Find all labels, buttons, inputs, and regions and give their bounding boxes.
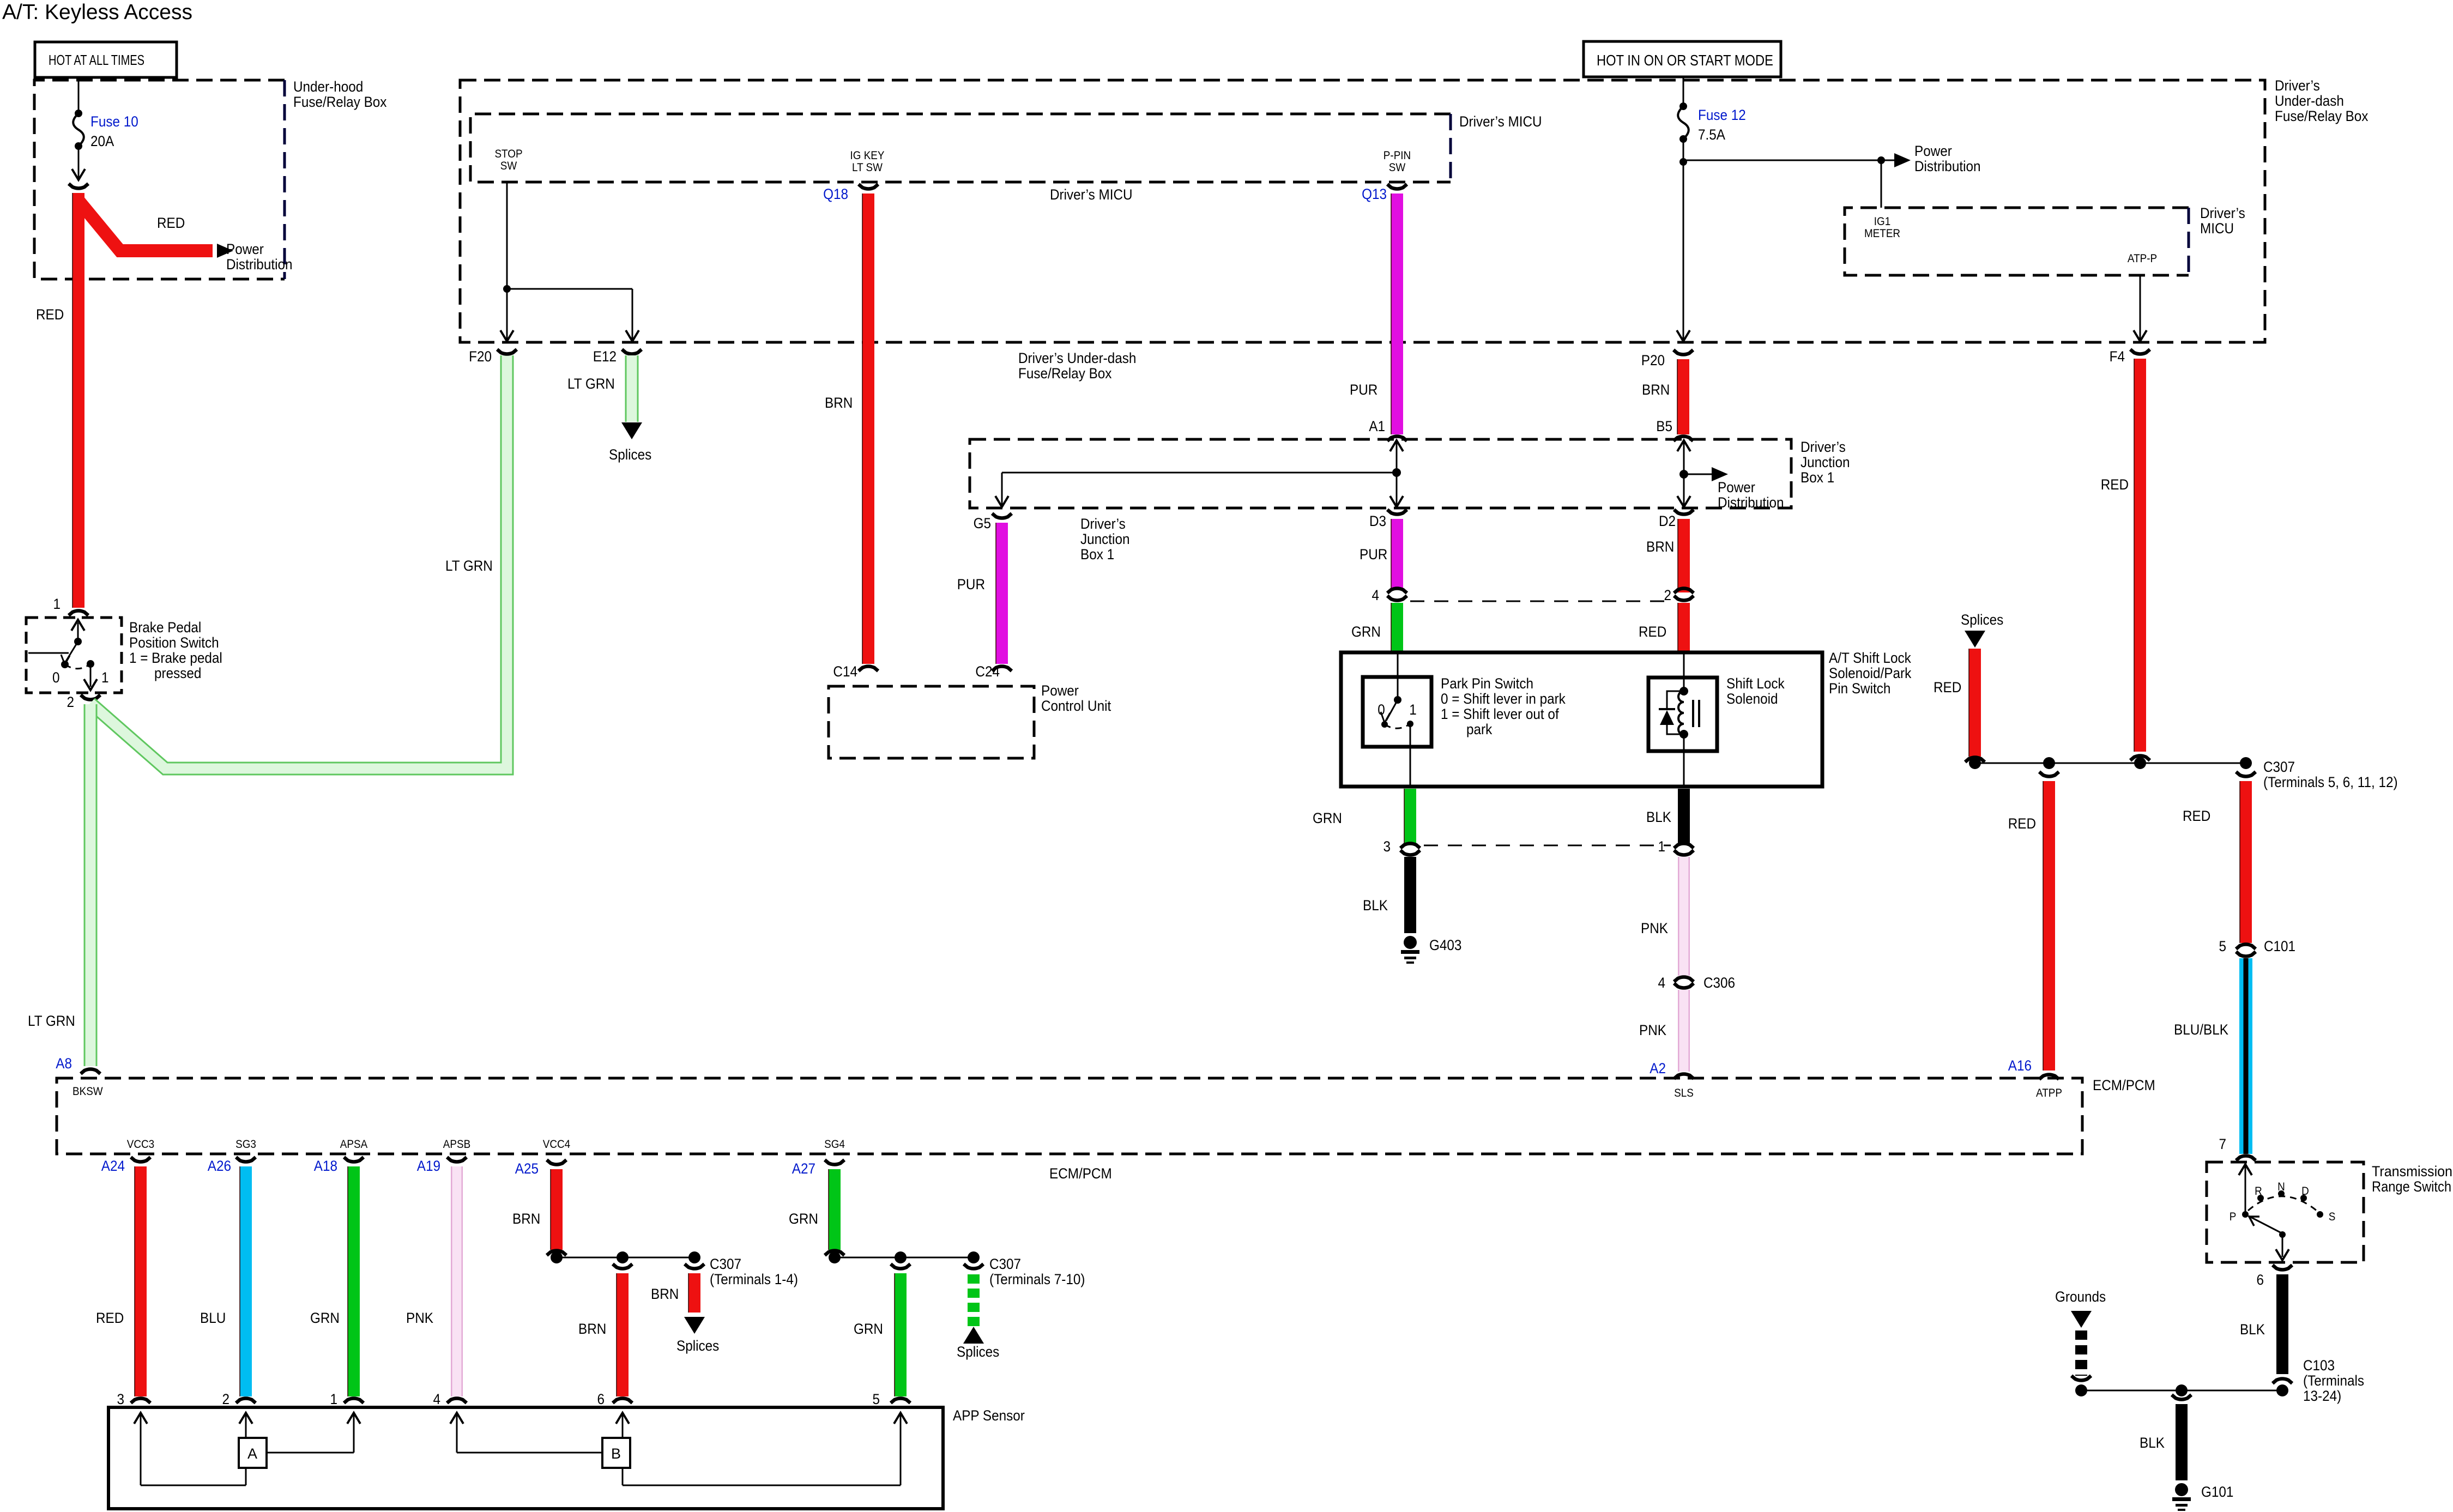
brake pedal position switch box bbox=[26, 618, 222, 693]
wire BRN A25 down bbox=[551, 1169, 557, 1250]
TRS internals bbox=[2239, 1164, 2323, 1260]
bus line C307 1-4 bbox=[551, 1251, 700, 1263]
svg-text:SW: SW bbox=[500, 160, 517, 172]
svg-text:Box 1: Box 1 bbox=[1801, 470, 1834, 486]
driver's under-dash fuse/relay box bbox=[460, 78, 2369, 342]
svg-text:(Terminals 5, 6, 11, 12): (Terminals 5, 6, 11, 12) bbox=[2263, 775, 2398, 790]
label Fuse 12 7.5A bbox=[1698, 107, 1746, 143]
under-hood fuse/relay box bbox=[34, 79, 387, 279]
label PUR (Q13) bbox=[1350, 382, 1377, 398]
svg-text:D: D bbox=[2301, 1185, 2309, 1197]
label PUR (G5) bbox=[957, 577, 985, 592]
svg-text:BRN: BRN bbox=[578, 1321, 606, 1337]
svg-text:Distribution: Distribution bbox=[226, 257, 292, 273]
label RED (F4) bbox=[2101, 477, 2129, 493]
svg-text:0: 0 bbox=[1377, 702, 1385, 718]
connector A16 top bbox=[2039, 772, 2059, 777]
svg-text:IG KEY: IG KEY bbox=[850, 149, 884, 162]
svg-text:A2: A2 bbox=[1650, 1061, 1666, 1076]
svg-text:A19: A19 bbox=[417, 1158, 440, 1174]
svg-text:SG4: SG4 bbox=[824, 1138, 845, 1151]
pin 1 brake switch bbox=[53, 596, 88, 615]
svg-text:Junction: Junction bbox=[1801, 455, 1850, 470]
svg-text:Q13: Q13 bbox=[1362, 186, 1387, 202]
pin A8 bbox=[56, 1056, 100, 1074]
label BRN (stub) bbox=[651, 1286, 679, 1302]
APP pin 3 bbox=[117, 1392, 150, 1407]
shift lock solenoid inner box bbox=[1648, 678, 1717, 751]
pin label APSB bbox=[443, 1138, 470, 1151]
svg-text:C101: C101 bbox=[2264, 939, 2295, 954]
svg-text:BKSW: BKSW bbox=[72, 1085, 103, 1098]
connector pair C306 bbox=[1658, 975, 1735, 991]
svg-text:6: 6 bbox=[597, 1392, 605, 1407]
driver's MICU box (IG1 METER) bbox=[1845, 205, 2245, 275]
svg-text:SLS: SLS bbox=[1674, 1087, 1694, 1099]
connector splice stub bbox=[1965, 758, 1985, 763]
label RED (branch) bbox=[157, 215, 185, 231]
pin label SLS bbox=[1674, 1087, 1694, 1099]
svg-text:MICU: MICU bbox=[2200, 221, 2234, 237]
wire GRN 4 to solenoid box bbox=[1391, 603, 1397, 651]
connector C101 top branch bbox=[2236, 772, 2256, 777]
label Splices (right) bbox=[1961, 612, 2003, 628]
APP pin 1 bbox=[330, 1392, 364, 1407]
svg-text:BLU/BLK: BLU/BLK bbox=[2174, 1022, 2228, 1038]
svg-text:C307: C307 bbox=[2263, 759, 2295, 775]
svg-text:3: 3 bbox=[1383, 839, 1391, 855]
svg-text:RED: RED bbox=[2101, 477, 2129, 493]
svg-text:A24: A24 bbox=[101, 1158, 125, 1174]
svg-text:BLK: BLK bbox=[2240, 1322, 2265, 1338]
label BLU (A26) bbox=[200, 1310, 226, 1326]
label Power Distribution (under-hood) bbox=[226, 241, 292, 273]
connector F20 bbox=[469, 349, 517, 365]
svg-text:BRN: BRN bbox=[1646, 539, 1674, 555]
svg-text:0 = Shift lever in park: 0 = Shift lever in park bbox=[1441, 691, 1566, 707]
dashed link 4 to 2 bbox=[1410, 601, 1671, 602]
wire BLU A26 to APP 2 bbox=[240, 1166, 246, 1396]
park pin switch inner box bbox=[1363, 677, 1431, 747]
park pin switch internals bbox=[1381, 652, 1413, 787]
wire LT GRN from pin2 to F20 bbox=[90, 355, 507, 769]
svg-text:1: 1 bbox=[1409, 702, 1417, 718]
svg-text:Driver’s MICU: Driver’s MICU bbox=[1050, 187, 1133, 203]
APP internal arrows bbox=[134, 1413, 907, 1424]
connector F4 bottom bbox=[2130, 756, 2150, 761]
svg-text:HOT AT ALL TIMES: HOT AT ALL TIMES bbox=[49, 52, 144, 68]
connector F4 bbox=[2110, 349, 2150, 365]
connector pair C101 bbox=[2219, 939, 2295, 957]
svg-text:Splices: Splices bbox=[609, 447, 651, 463]
wire BRN bus to APP 6 bbox=[617, 1273, 623, 1396]
svg-text:Driver’s Under-dash: Driver’s Under-dash bbox=[1018, 350, 1136, 366]
connector pair 3 bbox=[1383, 839, 1420, 855]
svg-text:1: 1 bbox=[101, 670, 109, 686]
pin A26 bbox=[208, 1157, 256, 1174]
connector grounds stub bbox=[2071, 1376, 2091, 1381]
label S bbox=[2329, 1211, 2336, 1223]
pin label IG1 METER bbox=[1864, 215, 1900, 240]
svg-text:5: 5 bbox=[2219, 939, 2226, 954]
svg-text:6: 6 bbox=[2256, 1272, 2264, 1288]
svg-text:20A: 20A bbox=[90, 134, 114, 149]
svg-text:Splices: Splices bbox=[1961, 612, 2003, 628]
svg-text:BRN: BRN bbox=[825, 395, 853, 411]
svg-text:GRN: GRN bbox=[789, 1211, 818, 1227]
svg-text:Pin Switch: Pin Switch bbox=[1829, 681, 1890, 697]
label 0 brake switch bbox=[52, 670, 60, 686]
svg-text:5: 5 bbox=[872, 1392, 880, 1407]
svg-text:BRN: BRN bbox=[1642, 382, 1670, 398]
label PNK (lower) bbox=[1639, 1023, 1666, 1038]
pin A19 bbox=[417, 1157, 467, 1174]
svg-text:Power: Power bbox=[1041, 683, 1079, 699]
label driver's junction box 1 (middle) bbox=[1080, 516, 1129, 563]
wire RED 2 to solenoid box bbox=[1678, 603, 1684, 651]
connector E12 bbox=[593, 349, 642, 365]
svg-text:B: B bbox=[611, 1446, 621, 1462]
svg-text:LT SW: LT SW bbox=[852, 161, 883, 174]
label PNK (A19) bbox=[406, 1310, 433, 1326]
label GRN (A18) bbox=[310, 1310, 340, 1326]
svg-text:Power: Power bbox=[1914, 143, 1952, 159]
APP pin 2 bbox=[222, 1392, 256, 1407]
svg-text:R: R bbox=[2255, 1185, 2262, 1197]
svg-text:Grounds: Grounds bbox=[2055, 1289, 2106, 1305]
wire from HOT AT ALL TIMES to fuse 10 bbox=[78, 77, 80, 112]
label R bbox=[2255, 1185, 2262, 1197]
pin A25 bbox=[515, 1160, 566, 1177]
svg-text:D2: D2 bbox=[1659, 513, 1676, 529]
svg-text:VCC4: VCC4 bbox=[543, 1138, 570, 1151]
label BLK (TRS) bbox=[2240, 1322, 2265, 1338]
wire fuse 10 to connector bbox=[72, 146, 85, 180]
svg-text:7.5A: 7.5A bbox=[1698, 127, 1726, 143]
label Power Distribution (junction box) bbox=[1718, 480, 1784, 511]
svg-text:A/T: Keyless Access: A/T: Keyless Access bbox=[2, 1, 192, 24]
connector 5 top bbox=[891, 1264, 910, 1269]
svg-text:3: 3 bbox=[117, 1392, 124, 1407]
title bbox=[2, 1, 192, 24]
wire GRN A27 down bbox=[829, 1169, 835, 1250]
connector D3 bbox=[1369, 510, 1407, 529]
APP sensor box bbox=[108, 1407, 1025, 1509]
svg-text:A1: A1 bbox=[1369, 419, 1385, 434]
junction box internal A1-D3 bbox=[995, 440, 1403, 507]
A/T shift lock solenoid/park pin switch box bbox=[1341, 650, 1911, 787]
pin A16 bbox=[2008, 1058, 2059, 1079]
svg-text:Driver’s: Driver’s bbox=[2275, 78, 2320, 94]
svg-text:Distribution: Distribution bbox=[1914, 159, 1980, 174]
wire BRN D2 down bbox=[1678, 519, 1684, 592]
APP internal element B bbox=[457, 1415, 901, 1485]
connector 6 TRS bbox=[2256, 1265, 2292, 1288]
svg-text:A27: A27 bbox=[792, 1161, 815, 1177]
svg-text:1: 1 bbox=[1658, 839, 1665, 855]
wire BRN splice stub bbox=[684, 1273, 705, 1334]
wire ATP-P to F4 bbox=[2134, 275, 2147, 341]
wire PNK 1 to C306 bbox=[1678, 857, 1690, 976]
wire BLK 3 to G403 bbox=[1404, 857, 1416, 933]
svg-text:RED: RED bbox=[2008, 816, 2036, 832]
svg-text:4: 4 bbox=[1371, 588, 1379, 603]
svg-text:BLK: BLK bbox=[2140, 1435, 2165, 1451]
svg-text:F20: F20 bbox=[469, 349, 492, 365]
svg-text:Junction: Junction bbox=[1080, 531, 1129, 547]
fuse F10 symbol bbox=[73, 110, 84, 150]
svg-text:Driver’s: Driver’s bbox=[2200, 205, 2245, 221]
wire RED F4 down bbox=[2134, 359, 2140, 752]
dashed link 3 to 1 bbox=[1424, 845, 1671, 846]
svg-text:Power: Power bbox=[1718, 480, 1755, 495]
label D bbox=[2301, 1185, 2309, 1197]
svg-text:A25: A25 bbox=[515, 1161, 539, 1177]
pin label APSA bbox=[340, 1138, 368, 1151]
pin label ATPP bbox=[2036, 1087, 2062, 1099]
APP pin 6 bbox=[597, 1392, 632, 1407]
svg-text:park: park bbox=[1466, 722, 1492, 737]
label N bbox=[2277, 1181, 2285, 1193]
label Shift Lock Solenoid bbox=[1726, 676, 1785, 707]
wire RED (fuse10 down to brake switch) bbox=[72, 193, 78, 608]
svg-text:C307: C307 bbox=[989, 1256, 1021, 1272]
svg-text:A8: A8 bbox=[56, 1056, 72, 1072]
pin label IG KEY LT SW bbox=[850, 149, 884, 174]
wire BRN Q18 to C14 bbox=[862, 193, 868, 664]
svg-text:P: P bbox=[2230, 1211, 2237, 1223]
label 1 brake switch bbox=[101, 670, 109, 686]
wire RED bus to A16 bbox=[2043, 781, 2049, 1071]
svg-text:PNK: PNK bbox=[1641, 921, 1668, 936]
svg-text:A26: A26 bbox=[208, 1158, 231, 1174]
ground G403 bbox=[1401, 936, 1419, 964]
svg-text:F4: F4 bbox=[2110, 349, 2125, 365]
svg-text:0: 0 bbox=[52, 670, 60, 686]
svg-text:BRN: BRN bbox=[651, 1286, 679, 1302]
label RED (left) bbox=[36, 307, 64, 323]
label driver's MICU (middle) bbox=[1050, 187, 1133, 203]
wire branch to E12 bbox=[507, 289, 639, 341]
svg-text:4: 4 bbox=[433, 1392, 440, 1407]
pin A2 bbox=[1650, 1061, 1694, 1079]
splice triangle and RED stub bbox=[1965, 631, 1985, 757]
svg-text:G5: G5 bbox=[974, 516, 991, 531]
APP pin 5 bbox=[872, 1392, 910, 1407]
label Splices (C307 1-4) bbox=[676, 1338, 719, 1354]
label G101 bbox=[2201, 1484, 2233, 1500]
label LT GRN (lower) bbox=[28, 1013, 75, 1029]
wire LT GRN E12 stub bbox=[621, 355, 642, 439]
svg-text:BLU: BLU bbox=[200, 1310, 226, 1326]
svg-text:PUR: PUR bbox=[1360, 547, 1387, 563]
pin label SG4 bbox=[824, 1138, 845, 1151]
fuse F12 symbol bbox=[1678, 102, 1689, 143]
svg-text:A18: A18 bbox=[314, 1158, 337, 1174]
wire PNK C306 to A2 bbox=[1678, 990, 1690, 1072]
label Park Pin Switch bbox=[1441, 676, 1566, 737]
svg-text:13-24): 13-24) bbox=[2303, 1388, 2341, 1404]
svg-text:Power: Power bbox=[226, 241, 264, 257]
label GRN (park chain) bbox=[1313, 811, 1342, 826]
power control unit box bbox=[829, 683, 1111, 758]
svg-text:APSA: APSA bbox=[340, 1138, 368, 1151]
wire PUR G5 to C24 bbox=[996, 523, 1002, 664]
label 0 park pin bbox=[1377, 702, 1385, 718]
svg-text:VCC3: VCC3 bbox=[127, 1138, 154, 1151]
svg-text:(Terminals: (Terminals bbox=[2303, 1373, 2364, 1389]
svg-text:1 = Brake pedal: 1 = Brake pedal bbox=[129, 650, 222, 666]
pin Q18 bbox=[823, 184, 878, 202]
svg-text:P-PIN: P-PIN bbox=[1383, 149, 1411, 162]
label GRN (A27) bbox=[789, 1211, 818, 1227]
wire GRN dashed splice stub bbox=[963, 1274, 984, 1344]
bus line C307 5-6-11-12 bbox=[1969, 757, 2252, 769]
svg-text:ECM/PCM: ECM/PCM bbox=[1049, 1166, 1112, 1182]
svg-text:Range Switch: Range Switch bbox=[2372, 1178, 2451, 1195]
connector C24 bbox=[975, 664, 1012, 680]
label Grounds bbox=[2055, 1289, 2106, 1305]
svg-text:PUR: PUR bbox=[957, 577, 985, 592]
wire PUR D3 down bbox=[1391, 519, 1397, 588]
svg-text:RED: RED bbox=[1639, 624, 1666, 640]
connector 7 bbox=[2219, 1136, 2256, 1160]
svg-text:RED: RED bbox=[96, 1310, 124, 1326]
ground G101 bbox=[2172, 1483, 2191, 1511]
svg-text:ECM/PCM: ECM/PCM bbox=[2093, 1078, 2155, 1093]
svg-text:N: N bbox=[2277, 1181, 2285, 1193]
label RED (C101) bbox=[2183, 808, 2210, 824]
svg-text:C103: C103 bbox=[2303, 1358, 2335, 1374]
bus line C307 7-10 bbox=[829, 1251, 980, 1263]
label C307 (Terminals 7-10) bbox=[989, 1256, 1085, 1287]
label 1 park pin bbox=[1409, 702, 1417, 718]
label LT GRN (middle) bbox=[445, 558, 493, 574]
connector A1 bbox=[1369, 419, 1407, 441]
svg-text:A/T Shift Lock: A/T Shift Lock bbox=[1829, 650, 1911, 666]
wire RED bus to C101 bbox=[2240, 781, 2246, 943]
svg-text:Park Pin Switch: Park Pin Switch bbox=[1441, 676, 1533, 692]
svg-text:G101: G101 bbox=[2201, 1484, 2233, 1500]
svg-text:LT GRN: LT GRN bbox=[567, 376, 615, 392]
svg-text:Brake Pedal: Brake Pedal bbox=[129, 620, 201, 636]
pin label VCC3 bbox=[127, 1138, 154, 1151]
svg-text:BLK: BLK bbox=[1646, 809, 1671, 825]
connector B5 bbox=[1656, 419, 1693, 441]
svg-text:BLK: BLK bbox=[1363, 898, 1388, 914]
svg-text:Splices: Splices bbox=[957, 1344, 999, 1360]
svg-text:IG1: IG1 bbox=[1874, 215, 1890, 228]
APP internal element A bbox=[141, 1415, 354, 1485]
pin label ATP-P bbox=[2128, 252, 2157, 265]
svg-text:Fuse/Relay Box: Fuse/Relay Box bbox=[293, 94, 387, 110]
wire fuse 12 down to P20 bbox=[1677, 139, 1690, 341]
label RED (A16) bbox=[2008, 816, 2036, 832]
svg-text:SG3: SG3 bbox=[235, 1138, 256, 1151]
svg-text:C307: C307 bbox=[710, 1256, 741, 1272]
wire LT GRN pin2 down to A8 bbox=[84, 704, 98, 1066]
pin A24 bbox=[101, 1157, 150, 1174]
connector pair 2 bbox=[1664, 588, 1694, 603]
label BRN (P20) bbox=[1642, 382, 1670, 398]
connector P20 bbox=[1641, 350, 1693, 368]
svg-text:1: 1 bbox=[53, 596, 61, 612]
label BRN (A25) bbox=[512, 1211, 540, 1227]
wire GRN park pin to 3 bbox=[1404, 789, 1410, 844]
svg-text:Fuse 10: Fuse 10 bbox=[90, 114, 138, 130]
svg-text:SW: SW bbox=[1389, 161, 1406, 174]
svg-text:A16: A16 bbox=[2008, 1058, 2032, 1074]
wire RED A24 to APP 3 bbox=[135, 1166, 141, 1396]
label BLU/BLK bbox=[2174, 1022, 2228, 1038]
svg-text:Driver’s: Driver’s bbox=[1080, 516, 1126, 532]
svg-text:Control Unit: Control Unit bbox=[1041, 698, 1111, 714]
wire branch power distribution (under-dash) bbox=[1683, 153, 1911, 167]
label BLK (park chain) bbox=[1363, 898, 1388, 914]
svg-text:(Terminals 7-10): (Terminals 7-10) bbox=[989, 1272, 1085, 1287]
label BLK (solenoid chain) bbox=[1646, 809, 1671, 825]
svg-text:Fuse/Relay Box: Fuse/Relay Box bbox=[1018, 366, 1112, 382]
label GRN (pin5) bbox=[854, 1321, 883, 1337]
svg-text:RED: RED bbox=[2183, 808, 2210, 824]
connector top of RED wire bbox=[69, 184, 88, 189]
header box HOT AT ALL TIMES bbox=[35, 42, 177, 77]
brake switch internal switch bbox=[28, 620, 97, 690]
connector A25 bottom bbox=[547, 1251, 566, 1256]
svg-text:APSB: APSB bbox=[443, 1138, 470, 1151]
svg-text:Splices: Splices bbox=[676, 1338, 719, 1354]
connector G101 top bbox=[2172, 1395, 2191, 1400]
connector C14 bbox=[833, 664, 878, 680]
svg-text:1: 1 bbox=[330, 1392, 337, 1407]
svg-text:Fuse 12: Fuse 12 bbox=[1698, 107, 1746, 123]
ground bus line bbox=[2075, 1384, 2288, 1396]
connector C103 bbox=[2273, 1379, 2292, 1384]
svg-text:pressed: pressed bbox=[154, 666, 201, 681]
svg-text:Fuse/Relay Box: Fuse/Relay Box bbox=[2275, 108, 2369, 124]
wire RED power distribution branch bbox=[78, 201, 233, 258]
svg-text:APP Sensor: APP Sensor bbox=[953, 1408, 1025, 1424]
wire GRN A18 to APP 1 bbox=[348, 1166, 354, 1396]
label PNK (upper) bbox=[1641, 921, 1668, 936]
svg-text:GRN: GRN bbox=[1351, 624, 1381, 640]
svg-text:Under-dash: Under-dash bbox=[2275, 93, 2344, 109]
svg-text:2: 2 bbox=[1664, 588, 1671, 603]
pin label BKSW bbox=[72, 1085, 103, 1098]
svg-text:Position Switch: Position Switch bbox=[129, 635, 219, 651]
label BRN (D2) bbox=[1646, 539, 1674, 555]
svg-text:B5: B5 bbox=[1656, 419, 1672, 434]
solenoid U1 internals bbox=[1659, 652, 1699, 787]
svg-text:Under-hood: Under-hood bbox=[293, 79, 363, 95]
wire PNK A19 to APP 4 bbox=[451, 1166, 463, 1396]
wire BLK solenoid to 1 bbox=[1678, 789, 1690, 844]
connector D2 bbox=[1659, 510, 1694, 529]
connector pair 4 bbox=[1371, 588, 1407, 603]
label ECM/PCM (lower) bbox=[1049, 1166, 1112, 1182]
label BRN (Q18) bbox=[825, 395, 853, 411]
wire BLK to G101 bbox=[2176, 1404, 2188, 1480]
svg-text:4: 4 bbox=[1658, 975, 1665, 991]
wire from HOT IN ON to fuse 12 bbox=[1683, 77, 1684, 105]
wire branch down to IG1 METER bbox=[1881, 160, 1882, 208]
svg-text:Distribution: Distribution bbox=[1718, 495, 1784, 511]
label RED (D2 chain) bbox=[1639, 624, 1666, 640]
svg-text:C306: C306 bbox=[1703, 975, 1735, 991]
pin label STOP SW bbox=[494, 148, 522, 172]
svg-text:1 = Shift lever out of: 1 = Shift lever out of bbox=[1441, 706, 1560, 722]
transmission range switch box bbox=[2207, 1162, 2452, 1262]
